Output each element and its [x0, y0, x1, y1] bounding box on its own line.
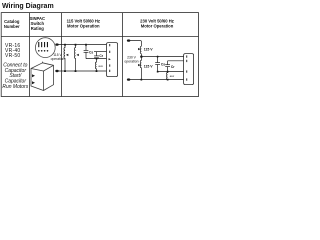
- winding 1 tap arrow: [138, 48, 140, 50]
- note: Connect to Capacitor Start/ Capacitor Run Motors: [2, 63, 28, 90]
- switch slots: [38, 42, 48, 47]
- run capacitor Cr branch: [94, 52, 99, 58]
- start capacitor Cs branch (230V): [155, 57, 160, 72]
- column line x=31: [29, 13, 31, 97]
- junction dot Cs: [157, 56, 159, 58]
- table outer frame: [1, 13, 198, 97]
- main winding 2: [74, 45, 75, 71]
- svg-text:115 V: 115 V: [144, 48, 154, 52]
- svg-text:Number: Number: [4, 24, 20, 29]
- svg-text:Cs: Cs: [89, 51, 93, 55]
- svg-text:Cs: Cs: [161, 63, 165, 67]
- svg-text:Cr: Cr: [171, 65, 175, 69]
- winding 1 tap arrow: [66, 54, 68, 56]
- junction dots bottom wire: [141, 79, 143, 81]
- series main winding 2: [140, 57, 141, 80]
- junction dots lower wire: [157, 71, 159, 73]
- svg-text:115 V: 115 V: [144, 64, 154, 68]
- 115 V operation label (at supply): [51, 53, 65, 61]
- SINPAC switch box (115 V): [107, 43, 118, 77]
- node dots on top wire: [64, 44, 87, 46]
- auxiliary winding (230V): [167, 72, 168, 80]
- SINPAC switch module (isometric box): [31, 62, 54, 91]
- bottom supply wire (230V): [130, 79, 184, 81]
- run capacitor Cr branch (230V): [165, 61, 170, 72]
- header: Catalog Number: [4, 19, 20, 29]
- svg-text:Wiring Diagram: Wiring Diagram: [2, 3, 54, 10]
- top supply wire: [59, 44, 107, 46]
- terminal marks 230V box: [185, 55, 188, 80]
- svg-text:aux: aux: [98, 64, 103, 68]
- column line x=122: [122, 13, 124, 97]
- svg-text:operation: operation: [51, 57, 65, 61]
- svg-text:Cr: Cr: [99, 54, 103, 58]
- mid junction dot: [140, 55, 143, 58]
- header separator y=36: [1, 35, 198, 37]
- wire Cs node to switch: [86, 58, 107, 60]
- header: SINPAC Switch Rating: [30, 16, 46, 31]
- SINPAC switch box (230 V): [184, 54, 194, 85]
- main winding 1: [64, 45, 65, 71]
- top supply wire with corner: [130, 41, 141, 47]
- bottom supply terminal dot (230V): [127, 78, 130, 80]
- switch pins (dots): [38, 50, 48, 52]
- winding 2 tap arrow: [138, 64, 140, 66]
- node dots on bottom wire: [64, 70, 97, 72]
- SINPAC switch face (circle symbol): [35, 38, 55, 58]
- svg-text:Rating: Rating: [31, 26, 44, 31]
- header: 115 Volt 50/60 Hz Motor Operation: [67, 19, 100, 29]
- svg-text:VR-50: VR-50: [5, 53, 20, 59]
- wire lower node to switch (230V): [158, 71, 184, 73]
- junction dot: [96, 58, 98, 60]
- svg-text:Motor Operation: Motor Operation: [141, 24, 174, 29]
- wire mid node to switch: [141, 56, 183, 58]
- terminal marks 115V box: [109, 44, 111, 72]
- catalog numbers VR-16 VR-40 VR-50: [5, 43, 20, 59]
- header: 230 Volt 50/60 Hz Motor Operation: [140, 19, 174, 29]
- series main winding 1: [140, 46, 141, 56]
- supply terminal dot L1: [55, 43, 58, 45]
- svg-text:operation: operation: [124, 59, 138, 63]
- winding 2 tap arrow: [76, 54, 78, 56]
- label 230 V operation: [124, 55, 138, 63]
- module quick-connect terminals: [32, 74, 35, 84]
- wire Cr top to switch (230V): [168, 60, 184, 62]
- column line x=62: [61, 13, 63, 97]
- svg-text:Run Motors: Run Motors: [2, 84, 28, 90]
- supply terminal dot top: [127, 39, 130, 41]
- wire Cr top to switch terminal 3: [94, 51, 107, 53]
- svg-text:Motor Operation: Motor Operation: [67, 24, 100, 29]
- svg-text:aux: aux: [170, 74, 175, 78]
- auxiliary winding: [95, 59, 96, 71]
- supply terminal dot L2: [55, 70, 58, 72]
- start capacitor Cs branch: [84, 45, 89, 59]
- bottom supply wire: [59, 70, 107, 72]
